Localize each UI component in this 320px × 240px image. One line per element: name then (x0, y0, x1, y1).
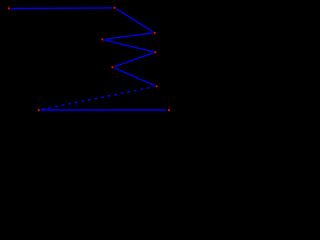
node P9 (167, 108, 171, 112)
wire P1-P2 top horizontal edge (9, 7, 115, 10)
node P2 (113, 6, 117, 10)
node P5 (153, 50, 157, 54)
node P8 (37, 108, 41, 112)
wire P3-P4 edge (103, 33, 155, 40)
node P1 (7, 6, 11, 10)
wire P8-P7 dashed edge (39, 86, 157, 110)
node P3 (153, 31, 157, 35)
wire P5-P6 edge (113, 52, 156, 67)
wire P6-P7 edge (113, 67, 157, 86)
node P4 (101, 38, 105, 42)
wire P8-P9 bottom horizontal edge (39, 109, 169, 111)
node P6 (111, 65, 115, 69)
wire P4-P5 edge (103, 40, 156, 53)
wire P2-P3 diagonal edge (115, 8, 155, 33)
node P7 (155, 84, 159, 88)
